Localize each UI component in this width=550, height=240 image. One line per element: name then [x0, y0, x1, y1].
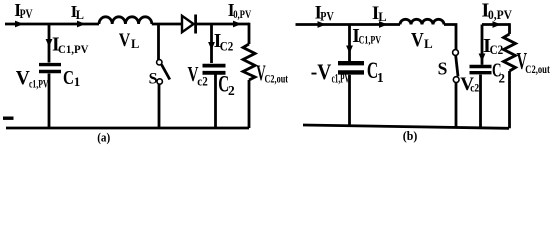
wire: (b) C1 branch top — [348, 25, 351, 62]
wire: (b) bottom rail — [303, 125, 509, 128]
resistor R load (a) zigzag — [243, 44, 255, 80]
svg-text:L: L — [131, 37, 139, 51]
svg-text:1: 1 — [377, 71, 384, 86]
switch S (a) lever — [162, 65, 170, 80]
svg-text:c1,PV: c1,PV — [332, 72, 350, 86]
wire: (a) C2 branch top — [210, 24, 213, 63]
capacitor C1 (b) plates — [338, 63, 364, 72]
svg-text:V: V — [411, 29, 424, 51]
stray dash mark left edge — [3, 117, 14, 120]
arrow I_PV (b) — [318, 21, 327, 28]
capacitor C2 (a) plates — [203, 66, 226, 73]
svg-text:C2: C2 — [220, 39, 234, 53]
arrow I_0,PV (b) on jumper — [493, 21, 502, 28]
diode D (a) cathode bar — [194, 15, 197, 34]
svg-text:V: V — [16, 68, 30, 89]
svg-text:2: 2 — [499, 70, 506, 85]
inductor L (b) coil humps — [400, 19, 444, 24]
svg-text:0,PV: 0,PV — [233, 7, 251, 21]
wire: (b) C1 branch bottom — [348, 75, 351, 126]
svg-text:C2,out: C2,out — [265, 74, 289, 86]
resistor R load (b) zigzag — [504, 34, 516, 71]
switch S (b) lever — [456, 56, 458, 77]
svg-text:PV: PV — [320, 10, 334, 24]
wire: (a) C1 branch top — [48, 24, 51, 63]
svg-text:L: L — [378, 10, 386, 24]
svg-text:PV: PV — [20, 7, 33, 21]
wire: (a) switch branch bottom — [158, 84, 161, 128]
wire: (a) C2 branch bottom — [214, 75, 217, 129]
arrow I_0PV (a) — [233, 21, 242, 28]
svg-text:S: S — [149, 71, 158, 88]
wire: (a) switch branch top — [157, 24, 160, 60]
capacitor C2 (b) plates — [470, 67, 492, 73]
arrow I_L (b) — [379, 21, 388, 28]
svg-text:-V: -V — [311, 59, 332, 84]
svg-text:C: C — [63, 67, 74, 89]
arrow I_C2 (b) down — [479, 54, 486, 62]
svg-text:c2: c2 — [470, 81, 479, 95]
svg-text:0,PV: 0,PV — [488, 7, 513, 22]
wire: (b) top jumper with I_0,PV — [482, 23, 510, 26]
wire: (b) inductor to corner and down to switch — [444, 25, 456, 50]
svg-text:c2: c2 — [197, 75, 208, 89]
inductor L (a) coil humps — [99, 17, 152, 24]
wire: (a) inductor to diode — [152, 23, 182, 26]
diode D (a) triangle — [182, 16, 194, 32]
svg-text:c1,PV: c1,PV — [29, 77, 49, 91]
svg-text:S: S — [438, 59, 448, 79]
wire: (b) resistor branch top — [508, 23, 511, 34]
wire: (b) switch to bottom rail — [455, 83, 458, 127]
arrow I_PV (a) — [15, 21, 24, 28]
svg-text:L: L — [76, 8, 84, 22]
svg-text:L: L — [424, 36, 433, 51]
svg-text:C2: C2 — [490, 42, 504, 57]
wire: (b) C2 branch bottom — [479, 75, 482, 128]
svg-text:(a): (a) — [97, 130, 110, 144]
capacitor C1 (a) plates — [39, 65, 61, 72]
wire: (a) resistor branch bottom — [248, 80, 251, 128]
svg-text:V: V — [119, 30, 131, 51]
wire: (b) C2 branch top — [481, 25, 484, 65]
wire: (b) top-left input segment — [296, 23, 401, 26]
switch S (a) top contact circle — [157, 60, 162, 65]
arrow I_C1,PV (b) down — [346, 46, 353, 54]
wire: (a) bottom rail — [6, 127, 249, 130]
svg-text:C1,PV: C1,PV — [359, 33, 382, 47]
svg-text:1: 1 — [74, 74, 81, 89]
arrow I_C1PV (a) down — [46, 39, 53, 47]
wire: (a) top-left input segment — [5, 23, 99, 26]
svg-text:2: 2 — [228, 83, 235, 98]
arrow I_L (a) — [77, 21, 86, 28]
svg-text:C1,PV: C1,PV — [58, 42, 89, 56]
switch S (b) bottom contact circle — [453, 77, 459, 83]
wire: (a) resistor branch top — [248, 23, 251, 44]
svg-text:(b): (b) — [403, 128, 418, 143]
switch S (a) bottom contact circle — [157, 79, 162, 84]
wire: (b) resistor branch bottom — [508, 71, 511, 128]
wire: (a) diode to top-right corner — [196, 23, 249, 26]
wire: (a) C1 branch bottom — [48, 74, 51, 129]
svg-text:C2,out: C2,out — [525, 62, 550, 76]
arrow I_C2 (a) down — [208, 42, 215, 50]
switch S (b) top contact circle — [453, 50, 459, 56]
